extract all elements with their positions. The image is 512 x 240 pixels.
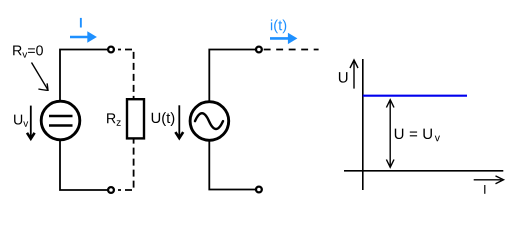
- arrow U(t) down: [178, 105, 180, 137]
- arrow right axis: [474, 179, 502, 181]
- wire bottom-left: [60, 141, 108, 190]
- annotation arrow Rv: [32, 63, 48, 90]
- axis U vertical: [362, 59, 364, 190]
- label Uv: [14, 115, 28, 127]
- double arrow U=Uv: [389, 101, 391, 167]
- resistor Rz: [127, 99, 144, 138]
- ac source: [190, 102, 229, 141]
- label i(t) blue: [271, 19, 286, 33]
- label I blue: [80, 18, 82, 28]
- wire top-middle: [209, 50, 255, 102]
- terminal top-middle: [256, 47, 262, 53]
- axis I horizontal: [344, 170, 503, 172]
- wire top-left: [60, 50, 108, 101]
- label Rv=0: [13, 45, 43, 57]
- label I axis: [484, 185, 485, 194]
- arrow Uv down: [30, 106, 32, 138]
- label U = Uv: [395, 129, 440, 142]
- terminal bottom-middle: [256, 187, 262, 193]
- label U axis: [339, 72, 348, 82]
- terminal top-left: [108, 47, 114, 53]
- terminal bottom-left: [108, 187, 114, 193]
- voltage source U_v: [41, 101, 80, 140]
- wire bottom-middle: [209, 141, 255, 189]
- label Rz: [107, 113, 121, 125]
- dashed wire bottom to Rz: [118, 139, 134, 190]
- dashed wire i(t): [264, 49, 319, 51]
- dashed wire top to Rz: [118, 50, 134, 99]
- label U(t): [152, 112, 175, 126]
- current arrow i(t): [270, 37, 289, 40]
- characteristic line U=Uv: [363, 95, 467, 97]
- current arrow I: [70, 36, 89, 39]
- arrow up axis: [353, 62, 355, 89]
